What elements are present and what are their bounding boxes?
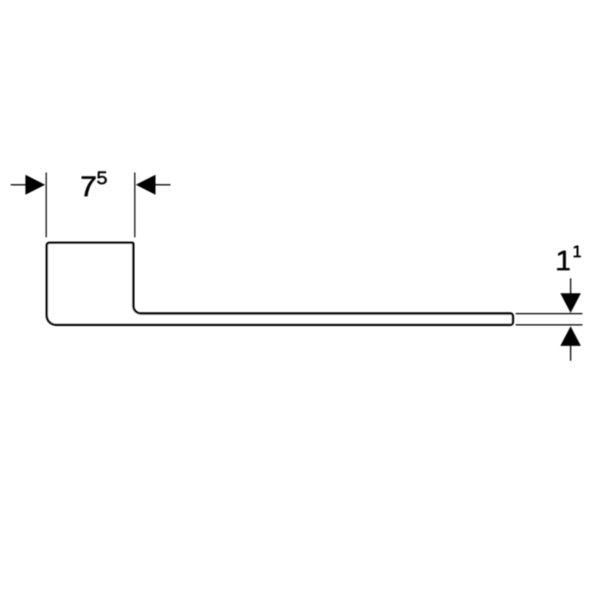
dimension text 1^1 [557, 246, 581, 271]
superscript digit 5 [97, 171, 107, 184]
digit 1 [557, 251, 570, 271]
extension line bottom (dim 1^1) [516, 324, 583, 326]
digit 7 [82, 176, 96, 196]
arrow up (dim 1^1 bottom) [570, 346, 572, 361]
extension line left (dim 7^5) [45, 173, 47, 238]
profile outline of towel rail (side view) [47, 243, 513, 325]
extension line top (dim 1^1) [516, 313, 583, 315]
superscript digit 1 [574, 246, 581, 258]
extension line right (dim 7^5) [134, 173, 136, 238]
arrow right (dim 7^5) [155, 184, 171, 186]
arrow left (dim 7^5) [11, 184, 26, 186]
arrow down (dim 1^1 top) [570, 278, 572, 293]
dimension text 7^5 [82, 171, 107, 196]
